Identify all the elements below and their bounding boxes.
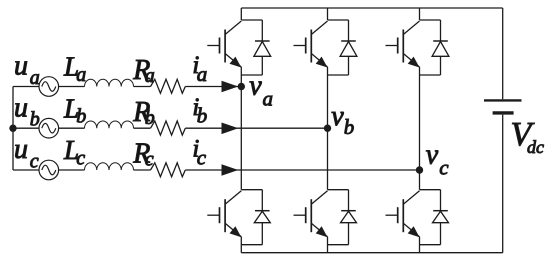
IGBT S5 (phase c upper) xyxy=(386,20,441,75)
wire: node v_a down to lower IGBT S4 xyxy=(240,87,242,190)
svg-text:b: b xyxy=(344,115,355,139)
IGBT S1 (phase a upper) xyxy=(207,20,262,75)
wire: resistor to node v_c xyxy=(185,169,419,171)
wire: S6 emitter to bottom rail xyxy=(327,237,329,253)
svg-text:a: a xyxy=(197,62,208,86)
wire: V_dc negative plate to bottom rail xyxy=(502,115,504,253)
svg-text:c: c xyxy=(30,150,39,172)
label i_a xyxy=(192,52,207,86)
current arrow i_c xyxy=(222,164,239,176)
wire: node v_c down to lower IGBT S2 xyxy=(419,170,421,190)
label u_c xyxy=(14,134,39,172)
wire: top rail to upper IGBT S1 collector xyxy=(240,8,242,20)
diode D3 (antiparallel, upper b) xyxy=(340,20,357,75)
label v_b xyxy=(331,101,354,139)
diode D2 (antiparallel, lower c) xyxy=(433,190,449,245)
svg-text:v: v xyxy=(331,101,344,132)
svg-text:c: c xyxy=(197,145,207,169)
resistor R_c xyxy=(151,163,186,177)
wire: phase a from bus to source xyxy=(13,86,39,88)
label u_b xyxy=(14,92,40,130)
label R_c xyxy=(132,139,154,171)
resistor R_a xyxy=(151,79,186,93)
wire: top rail to V_dc positive plate xyxy=(502,8,504,99)
label i_c xyxy=(192,136,206,170)
wire: source to inductor L_b xyxy=(59,127,85,129)
wire: resistor to node v_b xyxy=(185,127,327,129)
wire: resistor to node v_a xyxy=(185,86,241,88)
IGBT S6 (phase b lower) xyxy=(294,190,349,245)
node v_a junction dot xyxy=(238,83,245,90)
svg-text:c: c xyxy=(145,149,154,171)
wire: top rail to upper IGBT S3 collector xyxy=(327,8,329,20)
label R_b xyxy=(132,97,155,129)
wire: phase b from bus to source xyxy=(13,127,39,129)
label V_dc xyxy=(511,116,545,157)
label v_c xyxy=(426,139,450,179)
svg-text:b: b xyxy=(30,109,40,131)
resistor R_b xyxy=(151,121,186,135)
wire: left source bus vertical xyxy=(12,87,14,171)
wire: bottom DC rail (-) xyxy=(241,252,502,254)
diode D4 (antiparallel, lower a) xyxy=(254,190,270,245)
svg-text:b: b xyxy=(197,104,208,128)
label R_a xyxy=(132,55,155,87)
svg-text:a: a xyxy=(263,87,274,111)
DC source V_dc (battery) xyxy=(484,100,522,113)
wire: top rail to upper IGBT S5 collector xyxy=(419,8,421,20)
label L_c xyxy=(63,135,85,169)
IGBT S2 (phase c lower) xyxy=(386,190,441,245)
label i_b xyxy=(192,94,207,128)
label L_a xyxy=(63,52,86,86)
wire: node v_b down to lower IGBT S6 xyxy=(327,128,329,190)
wire: source to inductor L_a xyxy=(59,86,85,88)
AC source u_b xyxy=(39,118,59,138)
IGBT S3 (phase b upper) xyxy=(294,20,349,75)
wire: S2 emitter to bottom rail xyxy=(419,237,421,253)
svg-text:a: a xyxy=(76,64,86,86)
wire: inductor to resistor R_c xyxy=(134,169,151,171)
label u_a xyxy=(14,51,40,89)
node v_b junction dot xyxy=(324,125,331,132)
junction dot on source bus (node n) xyxy=(9,125,16,132)
current arrow i_b xyxy=(222,123,239,135)
wire: S3 emitter to node v_b xyxy=(327,67,329,128)
diode D1 (antiparallel, upper a) xyxy=(254,20,271,75)
wire: S5 emitter to node v_c xyxy=(419,67,421,170)
label L_b xyxy=(63,94,86,128)
wire: phase c from bus to source xyxy=(13,169,39,171)
AC source u_c xyxy=(39,160,59,180)
svg-text:u: u xyxy=(14,92,28,123)
current arrow i_a xyxy=(222,81,239,93)
svg-text:v: v xyxy=(426,139,439,170)
svg-text:b: b xyxy=(76,106,86,128)
diode D5 (antiparallel, upper c) xyxy=(432,20,449,75)
wire: S4 emitter to bottom rail xyxy=(240,237,242,253)
wire: top DC rail (+) xyxy=(241,7,502,9)
wire: inductor to resistor R_b xyxy=(134,127,151,129)
IGBT S4 (phase a lower) xyxy=(207,190,262,245)
svg-text:a: a xyxy=(30,67,40,89)
label v_a xyxy=(249,71,273,111)
svg-text:v: v xyxy=(249,71,262,102)
diode D6 (antiparallel, lower b) xyxy=(341,190,357,245)
svg-text:u: u xyxy=(14,51,28,82)
svg-text:c: c xyxy=(439,156,449,180)
AC source u_a xyxy=(39,77,59,97)
svg-text:a: a xyxy=(145,65,155,87)
inductor L_a xyxy=(85,79,134,86)
svg-text:c: c xyxy=(76,147,85,169)
svg-text:b: b xyxy=(145,107,155,129)
node v_c junction dot xyxy=(416,166,423,173)
svg-text:u: u xyxy=(14,134,28,165)
wire: S1 emitter to node v_a xyxy=(240,67,242,87)
inductor L_b xyxy=(85,121,134,128)
wire: source to inductor L_c xyxy=(59,169,85,171)
wire: inductor to resistor R_a xyxy=(134,86,151,88)
inductor L_c xyxy=(85,163,134,170)
svg-text:dc: dc xyxy=(527,137,544,157)
